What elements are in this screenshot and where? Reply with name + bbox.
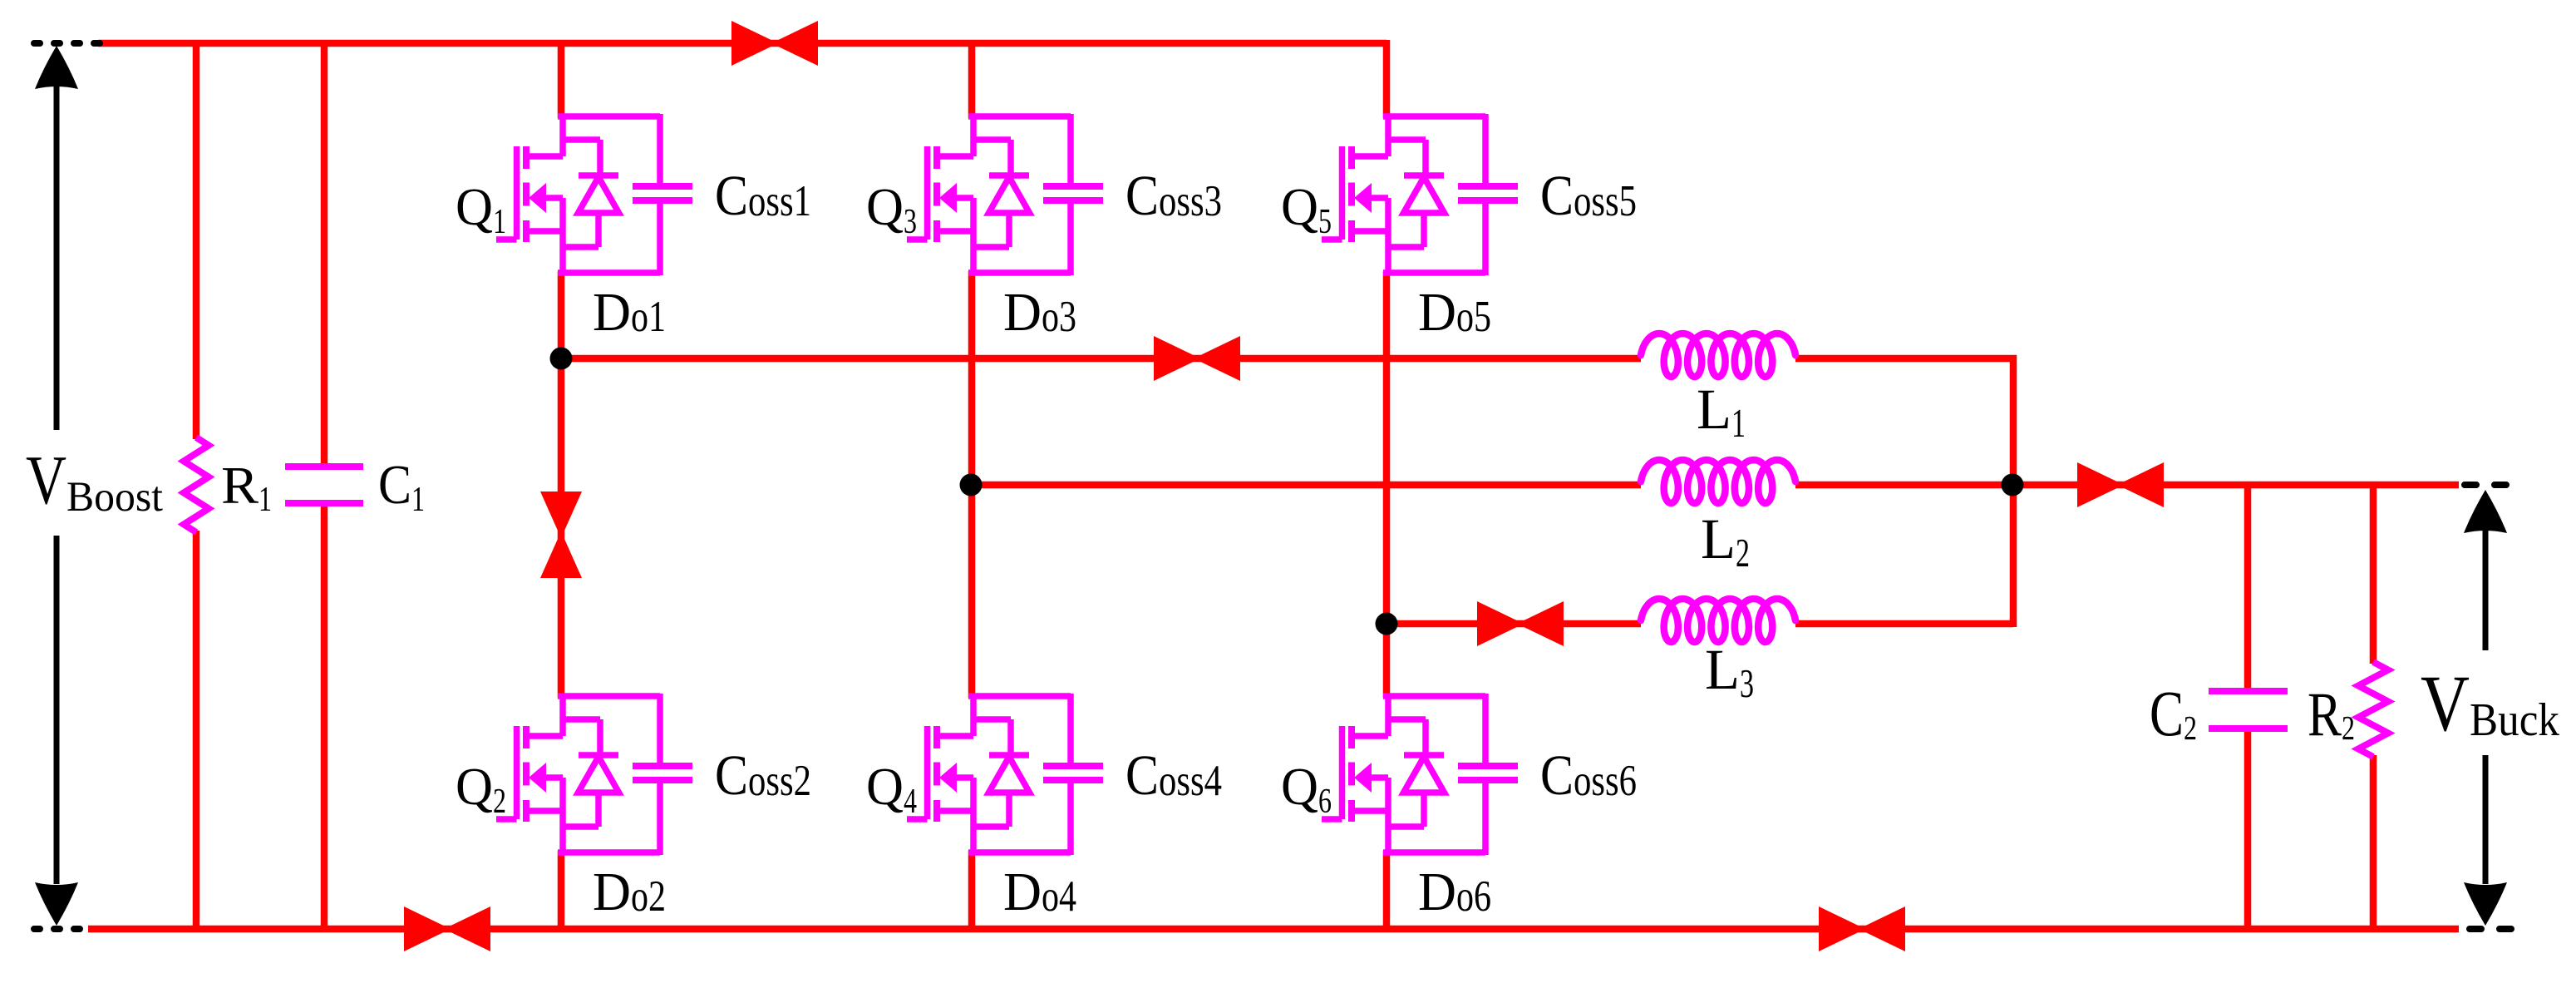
wire right vertical joining L1-L3	[2010, 355, 2017, 627]
diode Do5	[1388, 140, 1491, 343]
svg-text:Do3: Do3	[1003, 282, 1076, 343]
resistor R1	[184, 437, 272, 532]
svg-text:VBoost: VBoost	[26, 442, 163, 521]
node D (right vertical / L2)	[2002, 474, 2024, 496]
wire Q5 drain-source loop	[1383, 114, 1485, 275]
svg-text:R2: R2	[2308, 680, 2355, 749]
svg-text:Coss4: Coss4	[1125, 743, 1222, 807]
wire Q6 drain-source loop	[1383, 694, 1485, 855]
svg-text:Q2: Q2	[456, 757, 506, 821]
svg-text:Coss6: Coss6	[1540, 743, 1637, 807]
diode Do4	[973, 719, 1076, 922]
valve diode on top rail	[731, 21, 818, 66]
valve diode on row L3	[1477, 601, 1564, 646]
wire leg 3 (Q5/Q6 half-bridge)	[1383, 40, 1391, 929]
wire Q4 drain-source loop	[968, 694, 1071, 855]
dashed continuation top-left	[34, 40, 104, 47]
valve diode on output row	[2077, 462, 2164, 507]
inductor L1	[1641, 333, 1795, 446]
node C (leg3 / L3)	[1376, 613, 1398, 635]
valve diode on bottom rail left	[404, 906, 490, 951]
wire phase row L3	[1387, 620, 2013, 628]
wire bottom rail	[88, 926, 2459, 933]
label V_Boost	[26, 442, 163, 521]
wire R2 branch	[2370, 485, 2377, 929]
wire leg 2 (Q3/Q4 half-bridge)	[968, 40, 976, 929]
dashed continuation right of output row	[2465, 482, 2507, 488]
dashed continuation bottom-left	[34, 926, 84, 932]
label V_Buck	[2421, 659, 2559, 748]
svg-text:Q4: Q4	[866, 757, 917, 821]
wire top rail (V_Boost +)	[98, 40, 1387, 47]
diode Do1	[563, 140, 666, 343]
svg-text:Q6: Q6	[1281, 757, 1332, 821]
wire leg 1 (Q1/Q2 half-bridge)	[558, 40, 565, 929]
transistor Q5	[1281, 114, 1388, 275]
transistor Q1	[456, 114, 563, 275]
capacitor C2	[2150, 677, 2288, 749]
transistor Q3	[866, 114, 973, 275]
svg-text:Q5: Q5	[1281, 177, 1332, 241]
valve diode on bottom rail right	[1819, 906, 1905, 951]
wire phase row L1	[561, 355, 2017, 363]
svg-text:L3: L3	[1705, 638, 1754, 706]
svg-text:L1: L1	[1697, 378, 1746, 446]
svg-text:Coss5: Coss5	[1540, 164, 1637, 227]
svg-text:Do2: Do2	[593, 862, 666, 922]
node B (leg2 / L2)	[960, 474, 983, 496]
diode Do6	[1388, 719, 1491, 922]
svg-text:C1: C1	[378, 454, 425, 519]
transistor Q4	[866, 694, 973, 855]
inductor L3	[1641, 599, 1795, 706]
wire Q3 drain-source loop	[968, 114, 1071, 275]
svg-text:C2: C2	[2150, 677, 2197, 749]
capacitor Coss2	[633, 743, 811, 807]
wire phase row L2	[972, 482, 2459, 489]
svg-text:Coss2: Coss2	[715, 743, 811, 807]
resistor R2	[2308, 662, 2388, 757]
wire C1 branch	[321, 40, 328, 929]
svg-text:Do5: Do5	[1418, 282, 1491, 343]
node A (leg1 / L1)	[550, 348, 573, 370]
wire C2 branch	[2244, 485, 2252, 929]
wire R1 branch	[193, 40, 200, 929]
diode Do2	[563, 719, 666, 922]
svg-text:Q3: Q3	[866, 177, 917, 241]
capacitor Coss6	[1458, 743, 1637, 807]
dashed continuation bottom-right	[2470, 926, 2512, 932]
capacitor C1	[285, 454, 425, 519]
diode Do3	[973, 140, 1076, 343]
capacitor Coss3	[1043, 164, 1222, 227]
V_Boost measurement arrow	[35, 46, 78, 926]
svg-text:Coss1: Coss1	[715, 164, 811, 227]
transistor Q2	[456, 694, 563, 855]
svg-text:R1: R1	[221, 456, 272, 519]
svg-text:Do1: Do1	[593, 282, 666, 343]
capacitor Coss1	[633, 164, 811, 227]
svg-text:L2: L2	[1701, 507, 1750, 575]
capacitor Coss5	[1458, 164, 1637, 227]
svg-text:Q1: Q1	[456, 177, 506, 241]
inductor L2	[1641, 460, 1795, 575]
V_Buck measurement arrow	[2464, 490, 2507, 926]
svg-text:Do4: Do4	[1003, 862, 1076, 922]
valve diode on row L1	[1154, 336, 1240, 381]
valve diode on leg 1	[540, 491, 582, 578]
wire Q1 drain-source loop	[558, 114, 660, 275]
svg-text:Do6: Do6	[1418, 862, 1491, 922]
capacitor Coss4	[1043, 743, 1222, 807]
svg-text:Coss3: Coss3	[1125, 164, 1222, 227]
svg-text:VBuck: VBuck	[2421, 659, 2559, 748]
wire Q2 drain-source loop	[558, 694, 660, 855]
transistor Q6	[1281, 694, 1388, 855]
